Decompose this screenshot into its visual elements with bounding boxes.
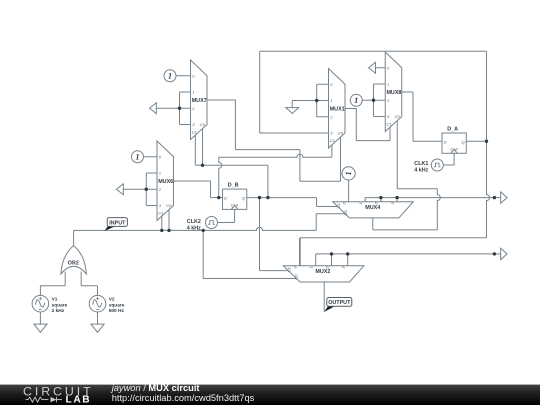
svg-text:square: square	[109, 302, 125, 308]
wire D_A Q output	[466, 140, 486, 142]
wire to V1	[40, 285, 65, 287]
constant 1 at MUX8 pin 2	[350, 94, 362, 106]
svg-text:CLK1: CLK1	[414, 161, 428, 167]
svg-text:C1: C1	[386, 122, 391, 127]
svg-text:C0: C0	[394, 114, 400, 119]
wire MUX8 output	[402, 91, 413, 93]
svg-text:MUX1: MUX1	[330, 107, 345, 113]
svg-text:MUX4: MUX4	[365, 205, 380, 211]
svg-text:500 Hz: 500 Hz	[109, 308, 125, 314]
wire to D_B D input	[211, 197, 223, 199]
wire MUX8 C0 vertical	[396, 121, 398, 189]
constant 1 at MUX6 pin 0	[132, 151, 144, 163]
wire MUX1 out horizontal	[356, 140, 390, 142]
svg-text:C0: C0	[200, 122, 206, 127]
wire MUX2 pin 1 stub	[315, 254, 317, 266]
wire OR2 input A stem	[64, 272, 66, 286]
wire MUX4 pin 2 stub	[380, 198, 382, 202]
wire MUX6 bracket	[145, 173, 147, 206]
wire MUX2 output	[323, 282, 325, 312]
wire MUX1 pin 0 stub	[317, 83, 329, 85]
wire MUX7 pin 3 stub	[180, 124, 191, 126]
wire MUX8 C0 horizontal	[397, 188, 437, 190]
junction MUX7 selects	[201, 164, 204, 167]
wire CLK2	[218, 222, 235, 224]
wire MUX6 out vertical	[210, 181, 212, 198]
node flag at MUX8 pin 0	[369, 62, 376, 73]
svg-text:OR2: OR2	[68, 260, 79, 266]
svg-text:1: 1	[136, 152, 140, 161]
svg-text:C1: C1	[158, 211, 163, 216]
wire MUX7 output	[207, 99, 235, 101]
wire MUX8 bracket	[373, 84, 375, 117]
logo resistor squiggle	[26, 397, 49, 402]
svg-text:INPUT: INPUT	[109, 220, 126, 226]
footer bar	[0, 385, 540, 405]
wire MUX4 pins feedback to arrow	[365, 197, 494, 199]
wire MUX2 pin 0 stub	[299, 238, 301, 266]
wire top loop horizontal	[260, 50, 487, 52]
svg-text:D_A: D_A	[447, 126, 458, 132]
svg-text:square: square	[52, 302, 68, 308]
junction MUX6 C1 on INPUT	[160, 229, 163, 232]
wire MUX1 output	[345, 108, 356, 110]
wire branch up with hop	[219, 157, 222, 197]
wire MUX8 out vertical	[412, 92, 414, 141]
ground at MUX1 pin 1	[286, 108, 299, 114]
wire CLK1	[443, 164, 454, 166]
wire CLK2 vertical	[234, 209, 236, 222]
ground below V2	[91, 324, 104, 332]
constant 1 at MUX4 pin 0	[342, 167, 355, 180]
constant 1 at MUX7 pin 0	[164, 70, 176, 82]
wire INPUT branch up	[315, 214, 317, 231]
svg-text:C0: C0	[338, 131, 344, 136]
wire MUX2 pin 2 stub	[331, 254, 333, 266]
clock source CLK1	[431, 159, 443, 171]
junction MUX7 pin 2	[178, 107, 181, 110]
svg-text:MUX8: MUX8	[386, 90, 401, 96]
output arrow node A	[501, 192, 507, 203]
svg-text:MUX2: MUX2	[315, 269, 330, 275]
svg-text:C1: C1	[192, 130, 197, 135]
mux U_MUX4 body	[333, 202, 414, 218]
wire to MUX2 C0	[203, 278, 296, 280]
wire MUX7 C1 vertical	[194, 135, 196, 165]
wire MUX2 pins to arrow 2	[316, 253, 495, 255]
junction MUX2 pin 2	[330, 252, 333, 255]
wire to MUX1 pin 3	[260, 132, 329, 134]
svg-text:OUTPUT: OUTPUT	[328, 300, 351, 306]
wire up to MUX8 C1	[389, 127, 391, 141]
wire node flag to MUX7 pin 2	[156, 107, 179, 109]
mux U_MUX6 body	[157, 141, 174, 221]
wire MUX8 C0 vertical 2 with hop	[437, 189, 440, 230]
wire D_A Q vertical with hop	[487, 51, 490, 237]
wire OR2 output vertical	[73, 230, 75, 246]
clock source CLK2	[206, 217, 218, 229]
voltage source V2	[89, 295, 106, 312]
wire to MUX4 C1	[317, 206, 338, 208]
wire MUX1 bracket	[316, 84, 318, 117]
logo diode symbol	[51, 397, 63, 402]
wire INPUT horizontal with hop	[74, 227, 317, 230]
svg-text:jaywon / MUX circuit: jaywon / MUX circuit	[110, 383, 200, 393]
svg-text:1: 1	[309, 266, 314, 268]
wire V2 top	[97, 286, 99, 296]
junction D_A Q	[485, 140, 488, 143]
node flag at MUX7 pin 2	[150, 103, 157, 114]
wire MUX6 pin 3 stub	[146, 205, 157, 207]
svg-text:1: 1	[159, 171, 161, 176]
wire MUX6 C1 vertical	[161, 216, 163, 230]
wire to MUX2 C1	[260, 270, 289, 272]
wire MUX4 pin 3 stub	[396, 198, 398, 202]
svg-text:1: 1	[330, 98, 332, 103]
CircuitLab logo	[23, 384, 94, 405]
svg-text:C0: C0	[294, 274, 299, 280]
svg-text:Q: Q	[242, 195, 245, 200]
wire MUX4 output stub	[372, 218, 374, 230]
INPUT flag	[104, 218, 127, 231]
wire MUX8 pin 1 stub	[374, 83, 386, 85]
wire to MUX1 C1 with hop	[219, 154, 332, 157]
junction INPUT branch	[202, 229, 205, 232]
junction MUX4 pin 3	[395, 196, 398, 199]
svg-text:http://circuitlab.com/cwd5fn3d: http://circuitlab.com/cwd5fn3dtt7qs	[112, 393, 255, 403]
wire MUX7 pin 2 stub	[180, 107, 191, 109]
wire top loop left vertical	[259, 51, 261, 133]
svg-text:4 kHz: 4 kHz	[414, 168, 428, 174]
wire MUX7 pin 1 stub	[180, 91, 191, 93]
wire to D_A D input	[413, 140, 442, 142]
wire CLK1 vertical	[453, 153, 455, 165]
wire MUX1 out vertical	[355, 109, 357, 141]
wire constant to MUX8 pin 2	[362, 99, 373, 101]
svg-text:D_B: D_B	[228, 183, 239, 189]
svg-text:1: 1	[344, 171, 353, 175]
svg-text:1: 1	[354, 96, 358, 105]
junction MUX6 pin 2	[145, 188, 148, 191]
wire constant to MUX4 pin 0	[348, 180, 350, 202]
junction MUX2 pin 3	[346, 252, 349, 255]
wire INPUT branch down	[202, 230, 204, 278]
wire MUX7 bracket	[179, 92, 181, 125]
svg-text:V2: V2	[109, 297, 115, 303]
junction D_B D input	[217, 196, 220, 199]
svg-text:LAB: LAB	[66, 395, 92, 405]
wire constant to MUX7 pin 0	[176, 75, 191, 77]
wire MUX8 pin 3 stub	[374, 116, 386, 118]
svg-text:Q: Q	[461, 139, 464, 144]
wire MUX8 pin 2 stub	[374, 99, 386, 101]
svg-text:CLK2: CLK2	[187, 219, 201, 225]
junction MUX6 C0 on INPUT	[167, 229, 170, 232]
svg-text:D: D	[444, 139, 447, 144]
wire MUX6 C0 vertical	[168, 210, 170, 231]
junction before arrow 1	[493, 196, 496, 199]
junction D_B Q branch 1	[258, 196, 261, 199]
svg-text:1: 1	[168, 71, 172, 80]
svg-text:MUX6: MUX6	[158, 179, 173, 185]
wire ground stem MUX1	[291, 101, 293, 108]
node flag at MUX6 pin 2	[117, 184, 124, 195]
junction before arrow 2	[493, 252, 496, 255]
wire up to MUX1 C1	[331, 144, 333, 158]
wire D_B Q branch up	[267, 165, 269, 197]
wire V2 to ground	[97, 312, 99, 324]
svg-text:1: 1	[358, 202, 363, 204]
wire node flag to MUX8 pin 0	[376, 67, 386, 69]
D flip-flop D_A	[442, 126, 466, 153]
junction MUX8 pin 2	[372, 99, 375, 102]
svg-text:C0: C0	[343, 210, 348, 216]
wire MUX4 pin 1 stub	[364, 198, 366, 202]
wire to MUX4 C0	[316, 213, 345, 215]
svg-text:2 kHz: 2 kHz	[52, 308, 65, 314]
wire to output arrow 1	[494, 197, 500, 199]
wire MUX1 pin 2 stub	[317, 116, 329, 118]
svg-text:C1: C1	[330, 138, 335, 143]
wire MUX4 output horizontal	[373, 229, 438, 231]
wire to V2	[81, 285, 97, 287]
wire constant to MUX6 pin 0	[144, 156, 158, 158]
wire MUX6 pin 2 stub	[146, 188, 157, 190]
mux U_MUX7 body	[191, 60, 208, 140]
wire ground to MUX1 pin 1	[292, 100, 317, 102]
wire D_B Q jog down	[316, 198, 318, 207]
wire V1 to ground	[39, 312, 41, 324]
mux U_MUX2 body	[283, 266, 364, 282]
ground below V1	[34, 324, 47, 332]
junction MUX1 pin 1	[315, 99, 318, 102]
wire MUX7 C0 vertical	[202, 129, 204, 166]
OR gate OR2	[61, 246, 87, 274]
wire node flag to MUX6 pin 2	[123, 188, 146, 190]
wire MUX2 pin 3 stub	[347, 254, 349, 266]
wire MUX7 out horizontal 2	[300, 180, 341, 182]
wire D_A Q to MUX2 pin 0 horizontal	[300, 237, 486, 239]
wire to output arrow 2	[494, 253, 500, 255]
wire MUX7 out vertical 2	[299, 150, 301, 182]
svg-text:4 kHz: 4 kHz	[187, 225, 201, 231]
mux U_MUX8 body	[385, 52, 402, 132]
svg-text:D: D	[224, 195, 227, 200]
OUTPUT flag	[324, 298, 352, 312]
wire down to MUX2 pin 0	[299, 238, 301, 266]
wire D_B Q branch down	[259, 198, 261, 271]
junction D_B Q branch 2	[266, 196, 269, 199]
voltage source V1	[32, 295, 49, 312]
wire MUX7 select join horizontal	[195, 164, 268, 166]
junction MUX4 pin 2	[379, 196, 382, 199]
wire OR2 input B stem	[80, 272, 82, 286]
wire MUX6 pin 1 stub	[146, 172, 157, 174]
wire D_B Q	[247, 197, 317, 199]
output arrow node B	[501, 248, 507, 259]
svg-text:V1: V1	[52, 297, 58, 303]
svg-text:C1: C1	[336, 203, 341, 208]
wire MUX6 output	[174, 180, 211, 182]
mux U_MUX1 body	[329, 69, 346, 149]
wire up to MUX1 C0	[340, 137, 342, 181]
svg-text:C1: C1	[287, 267, 292, 272]
wire MUX7 out vertical	[234, 100, 236, 150]
svg-text:MUX7: MUX7	[192, 98, 207, 104]
D flip-flop D_B	[223, 183, 247, 210]
wire MUX7 out horizontal	[235, 149, 300, 151]
svg-text:C0: C0	[166, 203, 172, 208]
svg-text:1: 1	[387, 82, 389, 87]
svg-text:1: 1	[192, 90, 194, 95]
wire V1 top	[39, 286, 41, 296]
wire MUX1 pin 1 stub	[317, 100, 329, 102]
